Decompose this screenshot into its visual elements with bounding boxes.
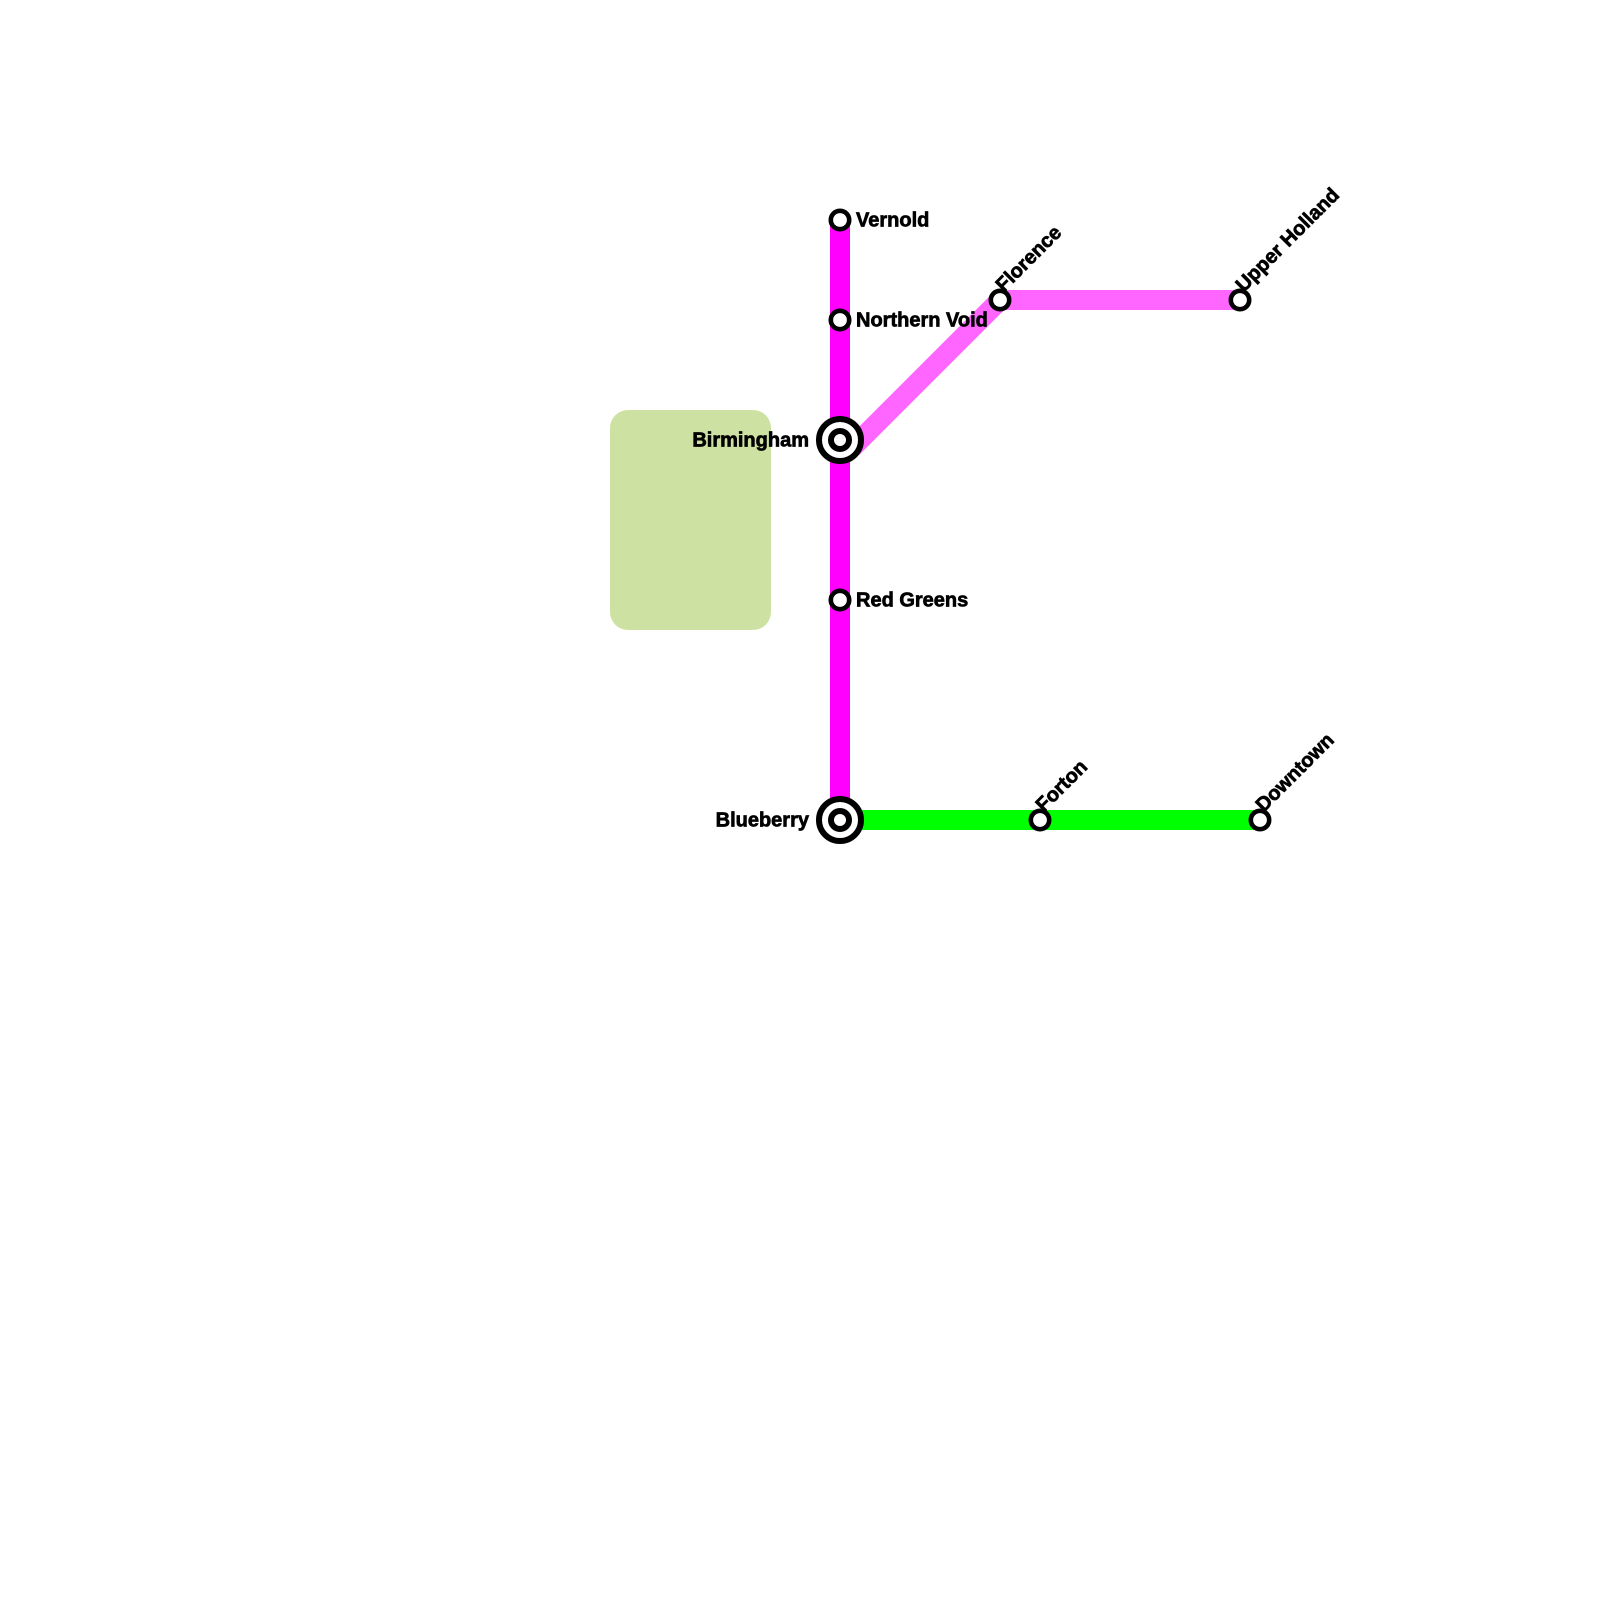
station Florence (991, 291, 1009, 309)
station Red Greens (831, 591, 849, 609)
svg-text:Birmingham: Birmingham (692, 430, 809, 452)
green line Blueberry-Downtown (840, 810, 1260, 830)
svg-text:Northern Void: Northern Void (856, 310, 988, 332)
station Downtown (1251, 811, 1269, 829)
park area (610, 410, 771, 630)
svg-text:Vernold: Vernold (856, 210, 929, 232)
svg-text:Red Greens: Red Greens (856, 590, 968, 612)
magenta line Vernold-Blueberry (830, 220, 850, 820)
station Northern Void (831, 311, 849, 329)
svg-text:Blueberry: Blueberry (716, 810, 810, 832)
interchange Birmingham (819, 419, 861, 461)
station Upper Holland (1231, 291, 1249, 309)
interchange Blueberry (819, 799, 861, 841)
violet line Birmingham-Florence-Upper Holland (852, 300, 1240, 448)
station Vernold (831, 211, 849, 229)
station Forton (1031, 811, 1049, 829)
